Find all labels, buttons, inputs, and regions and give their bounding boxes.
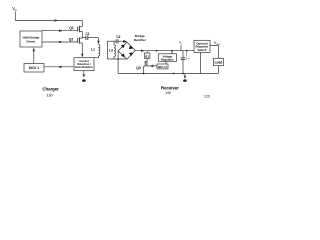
capacitor C2: [116, 39, 127, 43]
transistor Q1 label: [69, 26, 74, 30]
resistor R1: [144, 51, 150, 59]
wire arrowhead into Q3 gate: [149, 65, 153, 68]
capacitor C1: [86, 36, 99, 40]
wire Vin top rail to Q1 drain: [15, 20, 82, 22]
node junction rail VR: [156, 50, 158, 52]
wire driver to Q2 gate: [42, 41, 78, 43]
svg-text:in: in: [15, 8, 18, 12]
svg-text:Driver: Driver: [27, 40, 37, 44]
wire Vin vertical: [14, 12, 16, 21]
svg-text:Regulator: Regulator: [161, 58, 174, 62]
op-amp U7 Load block: [213, 58, 223, 65]
node Receiver caption: [161, 85, 179, 94]
inductor L1 label: [91, 47, 95, 51]
transistor Q2 label: [69, 38, 74, 42]
wire MCU1 to driver: [33, 50, 35, 64]
svg-text:Receiver: Receiver: [161, 85, 179, 90]
wire sensor box to ground: [83, 71, 85, 77]
svg-text:140: 140: [165, 91, 171, 95]
node junction rail C3: [186, 50, 188, 52]
wire L2 bottom to bridge AC2: [107, 58, 127, 60]
wire arrowhead on output rail: [141, 49, 145, 52]
svg-text:L2: L2: [109, 49, 113, 53]
inductor L2 label: [109, 49, 113, 53]
wire ORS output to load: [210, 46, 218, 59]
inductor L1 coil: [98, 45, 100, 57]
diode D1 top-left: [121, 44, 125, 48]
svg-text:Q3: Q3: [136, 66, 141, 70]
svg-text:Switch: Switch: [197, 48, 206, 52]
inductor L2 coil: [114, 41, 116, 59]
svg-text:MCU 1: MCU 1: [29, 66, 39, 70]
svg-text:Charger: Charger: [42, 87, 59, 92]
diode bridge rectifier diamond: [118, 42, 135, 59]
wire Vr leader: [180, 45, 182, 51]
op-amp U1 Half-Bridge Driver block: [20, 31, 42, 47]
wire rectifier output rail: [135, 50, 194, 52]
node Charger caption: [42, 87, 59, 98]
capacitor C3: [181, 51, 186, 74]
wire arrowhead down receiver ground: [184, 76, 187, 79]
wire arrowhead to Q1 gate: [59, 29, 63, 32]
svg-text:L1: L1: [91, 47, 95, 51]
wire arrowhead on top rail: [55, 19, 59, 22]
node Vout label: [214, 41, 220, 46]
op-amp U5 MCU 2 block: [157, 64, 168, 69]
svg-text:Q2: Q2: [69, 38, 74, 42]
transistor Q1: [78, 21, 83, 39]
wire regulator to MCU2: [165, 61, 167, 64]
svg-text:C2: C2: [116, 35, 120, 39]
op-amp U3 MCU 1 block: [24, 64, 44, 73]
wire rail to receiver ground: [184, 74, 186, 78]
capacitor C2 label: [116, 35, 120, 39]
svg-text:R1: R1: [145, 54, 149, 58]
svg-text:120: 120: [204, 95, 210, 99]
wire arrowhead into L1: [97, 41, 100, 44]
wire L1 bottom to sensor box: [94, 56, 98, 58]
transistor Q2: [78, 37, 83, 55]
node junction rail ORS: [171, 50, 173, 52]
diode D2 top-right: [129, 45, 134, 49]
node Bridge Rectifier label: [134, 34, 147, 42]
node junction bridge ground: [117, 58, 119, 60]
node junction Q3 source rail: [143, 73, 145, 75]
wire sensor box to MCU1: [44, 66, 74, 68]
transistor Q3: [144, 58, 157, 73]
svg-text:Q1: Q1: [69, 26, 74, 30]
node Vr label: [179, 41, 182, 46]
ground receiver: [183, 79, 187, 82]
wire L2 tank top to C2: [107, 40, 116, 42]
op-amp U4 Voltage Regulator block: [158, 51, 176, 62]
diode D4 bottom-right: [129, 53, 134, 56]
transistor Q3 label: [136, 66, 141, 70]
wire bridge DC- to bottom rail: [117, 51, 119, 74]
wire arrowhead into driver: [33, 48, 36, 52]
svg-text:MCU 2: MCU 2: [158, 65, 167, 69]
op-amp U2 Current Detection Demodulation block: [74, 58, 94, 71]
wire arrowhead Q2 source into sensor box: [81, 54, 84, 58]
wire driver to Q1 gate: [42, 30, 78, 32]
wire arrowhead to Q2 gate: [59, 41, 63, 44]
wire arrowhead down: [83, 74, 86, 77]
wire ORS bottom to rail: [199, 53, 201, 74]
capacitor C1 label: [85, 32, 89, 36]
wire arrowhead toward MCU1: [58, 66, 62, 69]
capacitor C4 stub: [186, 51, 188, 57]
svg-text:Load: Load: [215, 60, 223, 64]
svg-text:Demodulation: Demodulation: [75, 65, 93, 69]
wire receiver bottom rail: [118, 73, 218, 75]
node Vin label: [12, 6, 17, 12]
op-amp U6 Optional Regulator Switch block: [194, 40, 210, 52]
diode D3 bottom-left: [121, 53, 125, 57]
node C4 side marks: [186, 58, 190, 59]
node junction bottom rail C3: [182, 73, 184, 75]
node 120 reference: [204, 95, 210, 99]
svg-text:130: 130: [47, 93, 53, 97]
wire half-bridge midpoint to C1: [82, 37, 85, 39]
wire C1 down to L1: [97, 38, 99, 43]
svg-text:Rectifier: Rectifier: [134, 38, 147, 42]
wire load bottom to rail: [217, 66, 219, 74]
svg-text:r: r: [181, 43, 182, 46]
node junction rail mid: [173, 73, 175, 75]
wire L2 tank left side: [106, 41, 108, 59]
svg-text:C1: C1: [85, 32, 89, 36]
ground charger: [82, 79, 86, 82]
